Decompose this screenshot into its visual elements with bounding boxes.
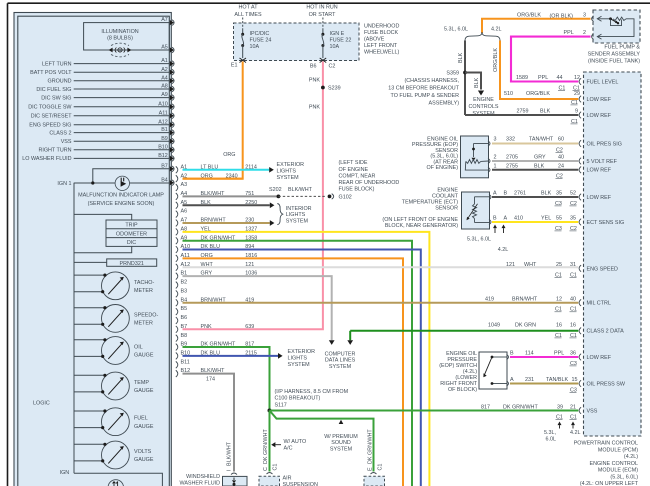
svg-text:OR START: OR START <box>309 12 336 18</box>
wire B10 DK BLU 2115 to exterior lights <box>183 355 279 357</box>
svg-text:A9: A9 <box>161 92 168 98</box>
svg-text:ORG/BLK: ORG/BLK <box>517 12 541 18</box>
connector pin A3 bracket <box>176 184 178 191</box>
svg-text:GRY: GRY <box>534 155 546 161</box>
wire A10 DK BLU 894 (runs to page bottom) <box>183 250 421 486</box>
svg-text:DIC SW SIG: DIC SW SIG <box>41 95 71 101</box>
svg-text:SUSPENSION: SUSPENSION <box>283 482 318 486</box>
svg-text:PPL: PPL <box>554 351 564 357</box>
svg-text:ENGINE: ENGINE <box>473 97 494 103</box>
svg-text:BLK/WHT: BLK/WHT <box>201 191 226 197</box>
svg-text:DK GRN/WHT: DK GRN/WHT <box>201 235 236 241</box>
svg-text:S359: S359 <box>446 70 459 76</box>
svg-text:MIL CTRL: MIL CTRL <box>587 301 611 307</box>
connector pin A5 bracket <box>176 202 178 209</box>
svg-text:44: 44 <box>557 75 563 81</box>
air suspension connector symbol <box>267 473 273 475</box>
svg-text:E1: E1 <box>231 63 238 69</box>
svg-text:TO FUEL PUMP & SENDER: TO FUEL PUMP & SENDER <box>391 93 460 99</box>
EOP sensor internals <box>474 143 489 145</box>
svg-text:LT BLU: LT BLU <box>201 164 219 170</box>
TRIP / ODOMETER / DIC display box <box>106 220 157 246</box>
svg-text:ENGINE CONTROL: ENGINE CONTROL <box>589 461 638 467</box>
svg-text:A: A <box>504 216 508 222</box>
svg-text:1327: 1327 <box>245 226 257 232</box>
feed wire into fuse 22 <box>322 18 324 29</box>
wire A7 BRN/WHT 230 to interior lights <box>183 222 270 224</box>
connector pin B4 bracket <box>176 299 178 306</box>
svg-text:4.2L: 4.2L <box>570 430 581 436</box>
svg-text:YEL: YEL <box>201 226 211 232</box>
svg-text:UNDERHOOD: UNDERHOOD <box>364 24 399 30</box>
svg-text:S202: S202 <box>269 187 282 193</box>
svg-text:751: 751 <box>245 191 254 197</box>
svg-text:ORG: ORG <box>201 253 213 259</box>
svg-text:ORG/BLK: ORG/BLK <box>526 91 550 97</box>
svg-text:MALFUNCTION INDICATOR LAMP: MALFUNCTION INDICATOR LAMP <box>78 193 164 199</box>
svg-text:40: 40 <box>570 297 576 303</box>
gauge TACHO-METER <box>102 272 130 300</box>
connector pin A6 bracket <box>176 211 178 218</box>
wire IGN bottom run <box>74 473 162 486</box>
svg-text:10A: 10A <box>250 44 260 50</box>
instrument panel cluster box <box>14 13 171 486</box>
svg-text:FUSE 24: FUSE 24 <box>250 38 272 44</box>
svg-text:DK BLU: DK BLU <box>201 244 221 250</box>
svg-text:DIC SET/RESET: DIC SET/RESET <box>31 114 72 120</box>
svg-text:FUSE BLOCK): FUSE BLOCK) <box>339 187 375 193</box>
connector pin A8 bracket <box>176 228 178 235</box>
wire DK GRN/WHT S117 premium sound branch <box>270 411 374 472</box>
svg-text:ENG SPEED: ENG SPEED <box>587 266 619 272</box>
svg-text:24: 24 <box>558 164 564 170</box>
svg-text:C1: C1 <box>377 464 383 471</box>
svg-text:(CHASSIS HARNESS,: (CHASSIS HARNESS, <box>404 78 459 84</box>
svg-text:IGN 1: IGN 1 <box>57 181 71 187</box>
svg-text:(OR BLK): (OR BLK) <box>550 13 574 19</box>
svg-text:ECT SENS SIG: ECT SENS SIG <box>587 220 625 226</box>
svg-text:E: E <box>368 467 374 471</box>
svg-text:AIR: AIR <box>283 475 292 481</box>
svg-text:PPL: PPL <box>538 75 548 81</box>
svg-text:G102: G102 <box>339 194 352 200</box>
svg-text:13 CM BEFORE BREAKOUT: 13 CM BEFORE BREAKOUT <box>388 85 459 91</box>
wire DK GRN/WHT S117 to PCM VSS <box>270 410 579 412</box>
PCM pin CLASS 2 DATA at y=330.8 <box>579 328 581 335</box>
EOP switch pin A wire TAN/BLK 231 to OIL PRESS SW <box>510 383 578 385</box>
svg-text:YEL: YEL <box>541 216 551 222</box>
svg-text:OIL PRES SIG: OIL PRES SIG <box>587 141 622 147</box>
svg-text:21: 21 <box>570 404 576 410</box>
svg-text:121: 121 <box>506 262 515 268</box>
illumination bulbs (8 bulbs symbol) <box>111 43 129 45</box>
wire B4 BRN/WHT 419 to PCM MIL CTRL <box>183 302 579 304</box>
svg-text:FUSE BLOCK: FUSE BLOCK <box>364 30 399 36</box>
svg-text:410: 410 <box>514 216 523 222</box>
PCM pin VSS at y=410.5 <box>579 407 581 414</box>
svg-text:SENDER ASSEMBLY: SENDER ASSEMBLY <box>588 51 641 57</box>
svg-text:A: A <box>510 377 514 383</box>
connector pin A2 bracket <box>176 175 178 182</box>
svg-text:S117: S117 <box>275 403 287 409</box>
connector pin B3 bracket <box>176 290 178 297</box>
PCM pin OIL PRESS SW at y=383.5 <box>579 380 581 387</box>
svg-text:PNK: PNK <box>309 78 320 84</box>
svg-text:B6: B6 <box>181 315 188 321</box>
junction dot IGN1 <box>91 181 94 184</box>
EOP switch pin B wire PPL 114 to LOW REF <box>510 356 578 358</box>
svg-text:121: 121 <box>245 262 254 268</box>
splice S359 <box>463 71 467 75</box>
svg-text:(4.2L): (4.2L) <box>624 454 638 460</box>
fuel level sender symbol <box>597 18 612 20</box>
svg-text:B10: B10 <box>158 144 168 150</box>
svg-text:(INSIDE FUEL TANK): (INSIDE FUEL TANK) <box>588 58 640 64</box>
svg-text:LO WASHER FLUID: LO WASHER FLUID <box>22 156 71 162</box>
PCM pin MIL CTRL at y=302.7 <box>579 299 581 306</box>
wire BLK (5.3L,6.0L) brace to splice S359 <box>464 41 466 116</box>
svg-text:16: 16 <box>556 323 562 329</box>
wire to trip odometer display <box>74 214 132 220</box>
PRND321 display box <box>107 259 157 266</box>
svg-text:SPEEDO-: SPEEDO- <box>134 312 158 318</box>
svg-text:DIC FUEL SIG: DIC FUEL SIG <box>36 87 71 93</box>
connector pin B6 bracket <box>176 317 178 324</box>
fuel pump pin 2 bracket <box>592 34 594 40</box>
svg-text:GAUGE: GAUGE <box>134 353 154 359</box>
svg-text:COOLANT: COOLANT <box>432 194 459 200</box>
svg-text:ASSEMBLY): ASSEMBLY) <box>429 100 460 106</box>
svg-text:(5.3L, 6.0L): (5.3L, 6.0L) <box>610 474 638 480</box>
svg-text:BLK/WHT: BLK/WHT <box>226 441 232 466</box>
svg-text:W/ PREMIUM: W/ PREMIUM <box>324 434 358 440</box>
ECT thermistor symbol <box>475 196 490 198</box>
wire A5 BLK 2250 to interior lights <box>183 204 270 206</box>
svg-text:RIGHT TURN: RIGHT TURN <box>38 148 71 154</box>
svg-text:ORG: ORG <box>201 173 213 179</box>
malfunction indicator lamp <box>115 176 129 190</box>
svg-text:BLK: BLK <box>541 191 552 197</box>
PCM engine variant arrows (VSS) <box>558 422 562 426</box>
svg-text:W/ AUTO: W/ AUTO <box>284 439 307 445</box>
svg-text:2759: 2759 <box>517 109 529 115</box>
svg-text:PPL: PPL <box>564 30 574 36</box>
svg-text:B6: B6 <box>310 64 317 70</box>
svg-text:A3: A3 <box>181 182 188 188</box>
svg-text:LOW REF: LOW REF <box>587 97 612 103</box>
svg-text:INTERIOR: INTERIOR <box>286 206 312 212</box>
svg-text:S239: S239 <box>328 86 341 92</box>
svg-text:894: 894 <box>245 244 254 250</box>
wire B12 BLK/WHT 174 to washer fluid switch <box>183 374 235 472</box>
fuse 22 (IGN E FUSE 22 10A) <box>322 29 324 34</box>
svg-text:ORG/BLK: ORG/BLK <box>493 48 499 72</box>
svg-text:25: 25 <box>556 262 562 268</box>
cluster internal bus wire <box>73 183 75 473</box>
wire A12 WHT 121 to PCM ENG SPEED <box>183 266 579 268</box>
fuse 24 (IPC/DIC FUSE 24 10A) <box>242 29 244 34</box>
w/ premium sound system label <box>339 420 344 424</box>
EOP pin 3 wire TAN/WHT 332 to OIL PRES SIG <box>492 143 578 145</box>
svg-text:(ON LEFT FRONT OF ENGINE: (ON LEFT FRONT OF ENGINE <box>382 217 458 223</box>
svg-text:60: 60 <box>558 137 564 143</box>
svg-text:TRIP: TRIP <box>125 223 138 229</box>
svg-text:(8 BULBS): (8 BULBS) <box>107 35 133 41</box>
svg-text:FUEL PUMP &: FUEL PUMP & <box>604 44 640 50</box>
gauge SPEEDO-METER <box>102 305 130 333</box>
svg-text:A/C: A/C <box>284 446 293 452</box>
svg-text:2115: 2115 <box>245 351 257 357</box>
w/ auto a/c label <box>271 442 275 447</box>
svg-text:40: 40 <box>558 155 564 161</box>
illumination box <box>84 23 170 50</box>
svg-text:B: B <box>493 216 497 222</box>
connector pin B7 bracket <box>176 326 178 333</box>
svg-text:16: 16 <box>570 323 576 329</box>
svg-text:SYSTEM: SYSTEM <box>330 446 353 452</box>
PCM pin OIL PRES SIG at y=143.5 <box>579 140 581 147</box>
svg-text:15: 15 <box>572 377 578 383</box>
wire BLK/WHT S202 to ground G102 <box>278 195 325 197</box>
svg-text:A4: A4 <box>161 75 168 81</box>
svg-text:TEMP: TEMP <box>134 380 149 386</box>
svg-text:35: 35 <box>556 191 562 197</box>
svg-text:510: 510 <box>504 91 513 97</box>
connector pin B11 bracket <box>176 361 178 368</box>
connector pin B8 bracket <box>176 335 178 342</box>
svg-text:ODOMETER: ODOMETER <box>116 231 147 237</box>
svg-text:EXTERIOR: EXTERIOR <box>288 349 316 355</box>
svg-text:HOT AT: HOT AT <box>239 5 259 11</box>
svg-text:DK GRN/WHT: DK GRN/WHT <box>503 404 538 410</box>
svg-text:1: 1 <box>494 164 497 170</box>
svg-text:A7: A7 <box>161 17 168 23</box>
svg-text:2705: 2705 <box>506 155 518 161</box>
ECT sens wire YEL 410 to ECT SENS SIG <box>492 221 578 223</box>
wire ORG/BLK (4.2L) brace to PCM LOW REF <box>500 41 578 100</box>
svg-text:BLK: BLK <box>201 200 212 206</box>
PCM pin LOW REF at y=99 <box>579 96 581 103</box>
svg-text:GAUGE: GAUGE <box>134 388 154 394</box>
svg-text:WHEELWELL): WHEELWELL) <box>364 50 399 56</box>
svg-text:C: C <box>263 467 269 471</box>
svg-text:DK BLU: DK BLU <box>201 351 221 357</box>
svg-text:ILLUMINATION: ILLUMINATION <box>101 29 138 35</box>
svg-text:817: 817 <box>481 404 490 410</box>
svg-text:OIL: OIL <box>134 345 143 351</box>
svg-text:35: 35 <box>570 216 576 222</box>
svg-text:LOW REF: LOW REF <box>587 113 612 119</box>
svg-text:FUEL LEVEL: FUEL LEVEL <box>587 79 619 85</box>
PCM pin FUEL LEVEL at y=81.5 <box>579 78 581 85</box>
wire BLK 2759 to PCM LOW REF <box>465 114 578 116</box>
svg-text:A: A <box>493 191 497 197</box>
wire A2 ORG 2340 stub <box>183 178 243 180</box>
svg-text:639: 639 <box>245 324 254 330</box>
svg-text:BLOCK, NEAR GENERATOR): BLOCK, NEAR GENERATOR) <box>385 223 458 229</box>
svg-text:PNK: PNK <box>201 324 212 330</box>
svg-text:A2: A2 <box>161 67 168 73</box>
svg-text:10A: 10A <box>330 44 340 50</box>
svg-text:DK GRN: DK GRN <box>515 323 536 329</box>
svg-text:DATA LINES: DATA LINES <box>325 358 356 364</box>
svg-text:BATT POS VOLT: BATT POS VOLT <box>30 70 72 76</box>
wire from DIC box bottom <box>74 246 132 252</box>
svg-text:BLK: BLK <box>458 52 464 63</box>
svg-text:&: & <box>119 49 122 53</box>
svg-text:3: 3 <box>583 12 586 18</box>
svg-text:COMPUTER: COMPUTER <box>325 351 356 357</box>
svg-text:12: 12 <box>556 297 562 303</box>
premium sound box <box>371 473 377 475</box>
svg-text:174: 174 <box>206 377 215 383</box>
svg-text:2114: 2114 <box>245 164 257 170</box>
svg-text:C1: C1 <box>273 464 279 471</box>
svg-text:LOW REF: LOW REF <box>587 355 612 361</box>
svg-text:419: 419 <box>245 297 254 303</box>
connector pin B5 bracket <box>176 308 178 315</box>
connector pin A7 bracket <box>176 220 178 227</box>
fuse block exit connectors B6 C2 <box>320 58 327 63</box>
svg-text:5.3L, 6.0L: 5.3L, 6.0L <box>444 26 468 32</box>
svg-text:ORG: ORG <box>223 152 235 158</box>
svg-text:CLASS 2: CLASS 2 <box>49 130 71 136</box>
svg-text:231: 231 <box>525 377 534 383</box>
svg-text:(LEFT SIDE: (LEFT SIDE <box>339 160 368 166</box>
wire B9 DK GRN/WHT 817 to splice S117 <box>183 347 270 410</box>
svg-text:114: 114 <box>525 351 534 357</box>
engine oil pressure (EOP) switch box <box>479 352 507 389</box>
svg-text:A1: A1 <box>161 58 168 64</box>
connector pin A10 bracket <box>176 246 178 253</box>
splice S117 <box>268 409 272 413</box>
svg-text:B2: B2 <box>181 280 188 286</box>
svg-text:FUSE 22: FUSE 22 <box>330 38 352 44</box>
svg-text:5.3L, 6.0L: 5.3L, 6.0L <box>467 237 491 243</box>
svg-text:GAUGE: GAUGE <box>134 457 154 463</box>
connector pin B2 bracket <box>176 282 178 289</box>
svg-text:1036: 1036 <box>245 271 257 277</box>
svg-text:2: 2 <box>494 155 497 161</box>
svg-text:WHT: WHT <box>201 262 214 268</box>
svg-text:WHT: WHT <box>524 262 537 268</box>
svg-text:29: 29 <box>574 91 580 97</box>
splice S202 <box>277 194 281 198</box>
svg-text:OF ENGINE: OF ENGINE <box>339 167 369 173</box>
svg-text:B1: B1 <box>161 127 168 133</box>
svg-text:SYSTEM: SYSTEM <box>288 362 311 368</box>
wire ORG from fuse 24 to cluster pin A2 <box>183 62 243 179</box>
svg-text:BLK: BLK <box>540 109 551 115</box>
engine harness split brace (5.3L,6.0L / 4.2L) <box>465 32 500 41</box>
svg-text:WASHER FLUID: WASHER FLUID <box>179 480 220 486</box>
svg-text:332: 332 <box>506 137 515 143</box>
svg-text:A6: A6 <box>181 209 188 215</box>
svg-text:1816: 1816 <box>245 253 257 259</box>
svg-text:A10: A10 <box>158 101 168 107</box>
svg-text:LIGHTS: LIGHTS <box>288 356 308 362</box>
svg-text:ALL TIMES: ALL TIMES <box>234 12 262 18</box>
wire A4 BLK/WHT 751 to splice S202 <box>183 195 279 197</box>
svg-text:(4.2L: ON UPPER LEFT: (4.2L: ON UPPER LEFT <box>580 481 639 486</box>
svg-text:B11: B11 <box>181 359 190 365</box>
windshield washer fluid switch box <box>231 473 237 475</box>
svg-text:HOT IN RUN: HOT IN RUN <box>306 5 337 11</box>
svg-text:31: 31 <box>570 262 576 268</box>
wire ORG/BLK fuse to fuel pump pin 3 <box>482 19 591 33</box>
svg-text:2250: 2250 <box>245 200 257 206</box>
svg-text:1358: 1358 <box>245 235 257 241</box>
gauge FUELGAUGE <box>102 408 130 436</box>
svg-text:39: 39 <box>557 404 563 410</box>
svg-text:BLK: BLK <box>474 77 480 88</box>
svg-text:SYSTEM: SYSTEM <box>286 218 309 224</box>
svg-text:36: 36 <box>570 351 576 357</box>
svg-text:GAUGE: GAUGE <box>134 424 154 430</box>
svg-text:6.0L: 6.0L <box>546 437 557 443</box>
connector pin A9 bracket <box>176 237 178 244</box>
svg-text:TAN/WHT: TAN/WHT <box>529 137 554 143</box>
wire DK GRN class 2 branch to computer data lines <box>349 331 351 341</box>
gauge VOLTSGAUGE <box>102 441 130 469</box>
svg-text:A5: A5 <box>161 45 168 51</box>
wire A9 DK GRN/WHT 1358 (runs to page bottom) <box>183 241 413 486</box>
svg-text:MODULE (PCM): MODULE (PCM) <box>598 447 638 453</box>
PCM pin LOW REF at y=357 <box>579 354 581 361</box>
svg-text:DK GRN/WHT: DK GRN/WHT <box>368 429 374 464</box>
svg-text:C100 BREAKOUT): C100 BREAKOUT) <box>275 396 321 402</box>
svg-text:WINDSHIELD: WINDSHIELD <box>186 474 220 480</box>
ground G102 <box>328 194 332 198</box>
svg-text:IPC/DIC: IPC/DIC <box>250 31 270 37</box>
connector pin A12 bracket <box>176 264 178 271</box>
svg-text:BRN/WHT: BRN/WHT <box>201 297 227 303</box>
svg-text:BRN/WHT: BRN/WHT <box>201 218 227 224</box>
svg-text:DIC: DIC <box>127 240 136 246</box>
svg-text:B4: B4 <box>161 177 168 183</box>
wire A8 YEL 1327 (runs to page bottom) <box>183 232 430 486</box>
svg-text:I: I <box>226 470 232 472</box>
svg-text:A11: A11 <box>159 110 168 116</box>
air suspension box <box>259 476 280 486</box>
svg-text:B5: B5 <box>181 306 188 312</box>
svg-text:B9: B9 <box>161 136 168 142</box>
svg-text:VSS: VSS <box>587 408 598 414</box>
connector pin A1 bracket <box>176 166 178 173</box>
svg-text:MODULE (ECM): MODULE (ECM) <box>598 468 638 474</box>
connector pin A4 bracket <box>176 193 178 200</box>
svg-text:EXTERIOR: EXTERIOR <box>277 162 305 168</box>
svg-text:LOW REF: LOW REF <box>587 168 612 174</box>
svg-text:OF BLOCK): OF BLOCK) <box>448 387 477 393</box>
svg-text:1049: 1049 <box>488 323 500 329</box>
EOP switch contacts <box>493 356 507 358</box>
EOP pin 1 wire BLK 2755 to LOW REF <box>492 169 578 171</box>
svg-text:TEMPERATURE (ECT): TEMPERATURE (ECT) <box>402 200 458 206</box>
wire BLK S359 branch to engine controls system <box>465 73 481 90</box>
wire DK GRN 1049 to PCM CLASS 2 DATA <box>350 330 578 332</box>
wire B1 GRY 1036 to computer data lines <box>183 276 332 340</box>
svg-text:(SERVICE ENGINE SOON): (SERVICE ENGINE SOON) <box>88 201 155 207</box>
svg-text:B: B <box>504 191 508 197</box>
svg-text:GRY: GRY <box>201 271 213 277</box>
svg-text:419: 419 <box>485 297 494 303</box>
connector pin B9 bracket <box>176 344 178 351</box>
svg-text:LOGIC: LOGIC <box>33 401 50 407</box>
svg-text:4.2L: 4.2L <box>491 26 502 32</box>
svg-text:PRND321: PRND321 <box>120 261 144 267</box>
interior lights system brace <box>277 204 283 225</box>
